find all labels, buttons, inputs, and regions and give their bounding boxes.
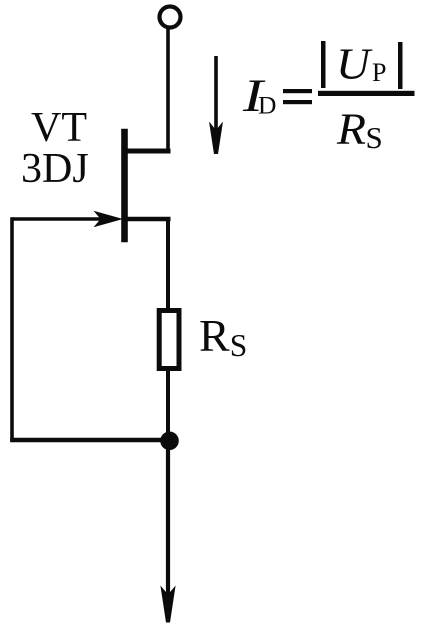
formula: fraction bar xyxy=(318,91,415,96)
svg-text:S: S xyxy=(366,120,383,155)
current direction arrow ID xyxy=(214,56,218,135)
resistor RS body xyxy=(159,311,179,369)
wire: gate feedback left vertical xyxy=(10,217,14,442)
output current arrowhead xyxy=(160,586,175,623)
svg-text:P: P xyxy=(372,58,386,87)
svg-text:VT: VT xyxy=(31,105,87,151)
formula: equals sign xyxy=(283,89,312,93)
svg-text:R: R xyxy=(336,104,366,153)
output current arrow wire xyxy=(166,441,170,600)
svg-text:D: D xyxy=(258,91,276,120)
transistor VT gate arrowhead xyxy=(94,211,124,227)
wire: terminal to drain lead xyxy=(166,28,170,154)
formula: ID xyxy=(242,69,267,121)
svg-text:3DJ: 3DJ xyxy=(21,146,89,192)
formula: left absolute-value bar xyxy=(321,41,326,88)
transistor VT source lead xyxy=(122,217,171,222)
terminal (drain supply) xyxy=(160,7,181,28)
formula: RS denominator xyxy=(336,104,366,153)
wire: bottom return to node xyxy=(10,438,168,442)
transistor VT channel bar xyxy=(121,129,128,242)
wire: source lead down to resistor xyxy=(166,217,170,310)
wire: resistor to node xyxy=(166,371,170,441)
transistor VT drain lead xyxy=(122,149,171,154)
formula: right absolute-value bar xyxy=(398,42,403,89)
current direction arrowhead xyxy=(209,122,223,155)
transistor VT gate wire xyxy=(12,217,112,221)
node junction dot xyxy=(160,432,179,451)
svg-text:U: U xyxy=(336,40,373,89)
